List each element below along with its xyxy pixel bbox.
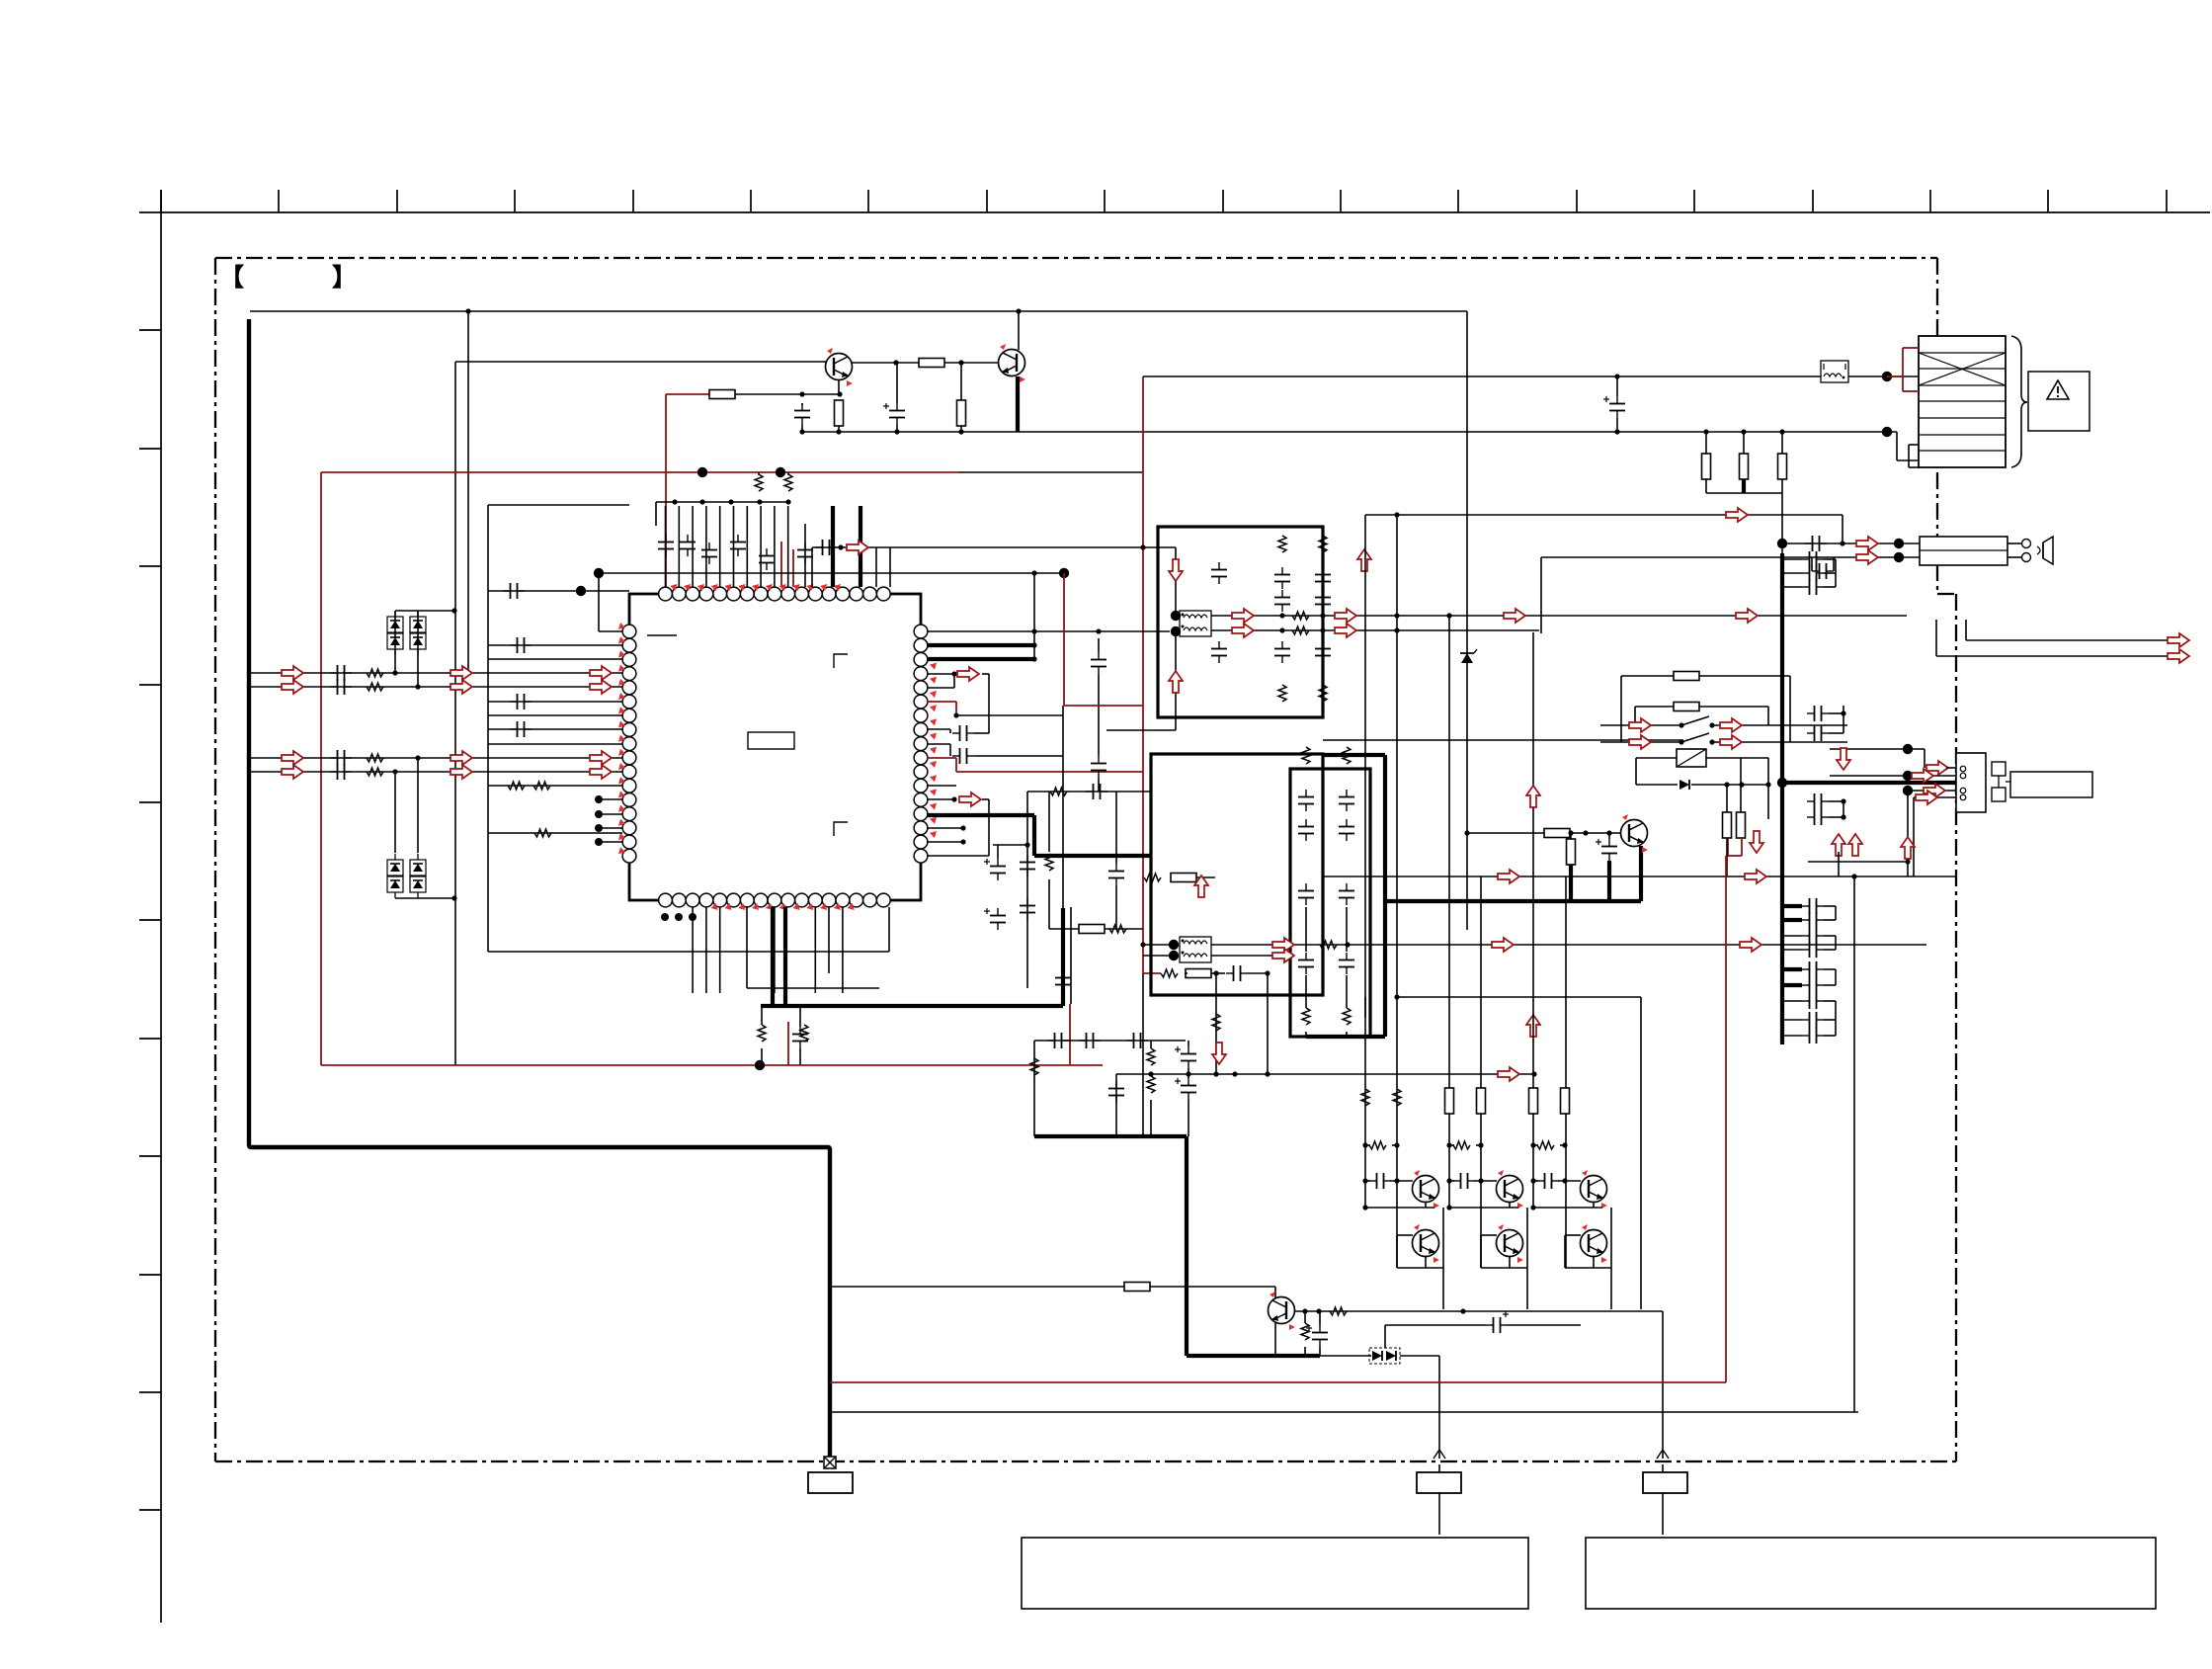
junction bbox=[1140, 544, 1145, 549]
resistor R28 bbox=[1079, 925, 1105, 934]
red stub bbox=[1143, 972, 1161, 974]
stub bbox=[599, 630, 622, 632]
audio input net bbox=[251, 771, 622, 773]
red pin bracket 2 bbox=[955, 758, 957, 772]
stub bbox=[1824, 968, 1836, 970]
stub bbox=[1048, 792, 1050, 852]
junction bbox=[465, 670, 470, 675]
transistor Q6 bbox=[1497, 1170, 1524, 1209]
junction bbox=[728, 499, 733, 504]
stub bbox=[1565, 1267, 1611, 1269]
junction bbox=[838, 544, 843, 549]
stub bbox=[1533, 1144, 1538, 1146]
Q2 emitter wire (thick) bbox=[1016, 376, 1020, 432]
board outline bottom (dash-dot) bbox=[215, 1460, 1956, 1462]
junction bbox=[1724, 782, 1729, 787]
resistor R8 bbox=[800, 1025, 808, 1042]
net bbox=[974, 755, 1063, 757]
signal arrow A5 bbox=[282, 680, 303, 694]
resistor R5 bbox=[755, 474, 763, 491]
junction (large) bbox=[1777, 539, 1787, 548]
junction bbox=[1531, 1071, 1536, 1076]
resistor R19 bbox=[1292, 612, 1309, 620]
signal arrow A34 bbox=[1498, 870, 1519, 883]
Q2 collector top lead bbox=[1018, 311, 1020, 350]
net Q1-Q2 link bbox=[852, 362, 919, 364]
capacitor C10 bbox=[330, 764, 352, 780]
connector CN3 body bbox=[1956, 753, 1986, 812]
resistor R6 bbox=[1740, 454, 1749, 479]
pin stub (thick) bbox=[859, 506, 862, 587]
battery black stub 2 bbox=[1909, 444, 1919, 446]
resistor R36 bbox=[1361, 1089, 1369, 1106]
IC bottom pin pointers bbox=[711, 903, 855, 910]
stub bbox=[1390, 1180, 1413, 1182]
warning triangle bbox=[2047, 380, 2069, 399]
pin stub bbox=[927, 687, 954, 689]
stub bbox=[1196, 876, 1215, 878]
stub bbox=[417, 758, 419, 853]
signal arrow A42 bbox=[1856, 537, 1878, 550]
left pin net bbox=[488, 832, 622, 834]
junction bbox=[1345, 942, 1350, 947]
stub bbox=[1115, 1107, 1117, 1136]
switch S1 contact bbox=[1681, 716, 1709, 725]
pin stub bbox=[927, 827, 963, 829]
transformer T2 bbox=[1180, 937, 1211, 962]
capacitor C28 bbox=[1802, 1028, 1824, 1043]
fuse FB1 bbox=[1821, 361, 1848, 382]
stub bbox=[888, 907, 890, 952]
pin stub bbox=[927, 743, 950, 745]
junction bbox=[1265, 970, 1270, 975]
junction bbox=[785, 499, 790, 504]
net to driver grid bbox=[1116, 1073, 1534, 1075]
pin stub bbox=[692, 506, 694, 587]
capacitor C37 bbox=[1812, 563, 1834, 579]
stub bbox=[838, 426, 840, 432]
stub bbox=[801, 425, 803, 432]
stub bbox=[1811, 557, 1813, 571]
stub bbox=[1935, 620, 1937, 656]
left pin net bbox=[488, 728, 622, 730]
signal arrow A6 bbox=[451, 680, 472, 694]
capacitor C6 bbox=[797, 542, 813, 564]
resistor R22 bbox=[1343, 747, 1351, 764]
IC U1 label box bbox=[748, 732, 794, 749]
net IC corner link bbox=[488, 590, 629, 592]
left pin net bbox=[488, 701, 622, 703]
junction bbox=[595, 838, 603, 846]
signal arrow A3 bbox=[451, 666, 472, 680]
rail cap stub (thick) bbox=[1782, 967, 1802, 971]
junction bbox=[1320, 613, 1325, 618]
stub bbox=[1699, 675, 1790, 677]
junction bbox=[1302, 1308, 1307, 1313]
stub bbox=[974, 732, 989, 734]
board outline left (dash-dot) bbox=[214, 258, 216, 1461]
capacitor C13 bbox=[1274, 567, 1290, 589]
stub bbox=[1248, 972, 1268, 974]
stub bbox=[1150, 1072, 1152, 1076]
cap bank link bbox=[1835, 906, 1837, 920]
stub bbox=[1726, 785, 1728, 812]
stub bbox=[1392, 1144, 1397, 1146]
stub (thick) bbox=[1607, 861, 1611, 901]
junction bbox=[757, 499, 762, 504]
stub bbox=[1570, 833, 1572, 839]
pin stub bbox=[678, 506, 680, 587]
stub bbox=[1304, 1347, 1306, 1356]
signal arrow A51 bbox=[1837, 748, 1850, 770]
audio input net bbox=[251, 672, 622, 674]
stub bbox=[1824, 984, 1836, 986]
rail cap stub bbox=[1782, 935, 1802, 937]
wire bbox=[735, 393, 840, 395]
stub bbox=[811, 547, 813, 587]
stub bbox=[1593, 1202, 1595, 1208]
capacitor C4 bbox=[730, 535, 746, 556]
resistor R15 bbox=[1278, 536, 1286, 552]
junction bbox=[1530, 1205, 1535, 1210]
stub bbox=[1560, 1144, 1565, 1146]
signal arrow A44 bbox=[1926, 761, 1948, 775]
audio input net bbox=[251, 686, 622, 688]
stub bbox=[1767, 707, 1769, 725]
pin stub down bbox=[719, 907, 721, 993]
left pin net bbox=[488, 714, 622, 716]
junction bbox=[1446, 1205, 1451, 1210]
capacitor C18 bbox=[1802, 565, 1824, 581]
battery red bracket vertical bbox=[1902, 348, 1904, 391]
junction bbox=[595, 824, 603, 832]
cap bank bus bbox=[656, 501, 790, 503]
resistor R13 bbox=[1147, 1048, 1155, 1065]
stub bbox=[1449, 1144, 1454, 1146]
stub bbox=[1425, 1256, 1427, 1268]
pin stub down bbox=[842, 907, 844, 993]
net emitter rail bbox=[802, 431, 1897, 433]
stub bbox=[1425, 1202, 1427, 1208]
cap bank link bbox=[1835, 936, 1837, 950]
stub bbox=[1185, 972, 1188, 974]
signal arrow A27 bbox=[1357, 549, 1371, 571]
CN2 terminal 2 bbox=[2022, 553, 2031, 562]
capacitor C20 bbox=[1802, 898, 1824, 914]
signal arrow A25 bbox=[1169, 559, 1183, 581]
stub bbox=[1509, 1202, 1511, 1208]
stub bbox=[394, 772, 396, 853]
junction bbox=[951, 671, 956, 676]
connector CN1 body bbox=[1919, 336, 2006, 467]
ruler vertical line bbox=[160, 190, 162, 1623]
stub bbox=[1365, 1180, 1370, 1182]
connector CN1 cross mark bbox=[1919, 353, 2006, 385]
capacitor C14 bbox=[1274, 590, 1290, 612]
stub bbox=[1843, 706, 1844, 733]
net long vertical 1 bbox=[1364, 515, 1366, 1208]
net filter2 out 2 bbox=[1211, 955, 1294, 957]
IC U1 internal mark B bbox=[834, 822, 848, 836]
signal arrow A39 bbox=[1629, 735, 1651, 749]
net speaker - bbox=[1541, 556, 1920, 558]
stub bbox=[758, 472, 760, 475]
resistor R46 bbox=[1537, 1141, 1554, 1149]
stub bbox=[1481, 1267, 1527, 1269]
junction bbox=[699, 499, 704, 504]
junction bbox=[1530, 1178, 1535, 1183]
resistor R41 bbox=[1477, 1088, 1486, 1114]
junction bbox=[1741, 429, 1746, 434]
net switch feed bbox=[1365, 514, 1843, 516]
capacitor C17 bbox=[1802, 551, 1824, 567]
net thick riser bbox=[1032, 815, 1036, 856]
capacitor C7 bbox=[330, 665, 352, 681]
resistor R10 bbox=[1186, 969, 1211, 978]
pin stub down bbox=[1070, 907, 1072, 1004]
signal arrow A48 bbox=[1832, 834, 1845, 856]
capacitor C34 (electrolytic) bbox=[1596, 839, 1617, 861]
stub bbox=[1616, 418, 1618, 432]
junction bbox=[1362, 1142, 1367, 1147]
junction bbox=[1186, 1071, 1190, 1076]
net VDD rail east bbox=[958, 471, 1143, 473]
warning note box bbox=[2028, 372, 2089, 431]
wire bbox=[1508, 1324, 1581, 1326]
net long vertical 2 bbox=[1396, 515, 1398, 1268]
signal arrow A30 bbox=[1740, 938, 1761, 952]
signal arrow A38 bbox=[1720, 718, 1742, 732]
red stub bbox=[1143, 876, 1144, 878]
signal arrow A41 bbox=[1750, 831, 1763, 853]
battery black stub 3 bbox=[1909, 466, 1919, 468]
net base rail Q1 bbox=[455, 361, 826, 363]
rail cap stub bbox=[1782, 1000, 1802, 1002]
capacitor C12 bbox=[1211, 562, 1227, 584]
stub bbox=[1509, 1256, 1511, 1268]
junction bbox=[1148, 1071, 1153, 1076]
to bottom rail bbox=[1442, 1208, 1444, 1309]
edge connector mark 1 bbox=[1434, 1450, 1445, 1459]
signal arrow A10 bbox=[590, 751, 612, 765]
ruler left tick marks bbox=[139, 330, 161, 1510]
capacitor C2 (electrolytic) bbox=[883, 403, 905, 425]
junction bbox=[1779, 429, 1784, 434]
pin stub bbox=[804, 524, 806, 587]
net AVCC link (red) bbox=[666, 393, 709, 395]
stub bbox=[1824, 919, 1836, 921]
net vertical feed B bbox=[454, 362, 456, 1065]
signal arrow A12 bbox=[451, 765, 472, 779]
stub bbox=[1305, 975, 1307, 1008]
stub bbox=[1824, 572, 1836, 574]
junction bbox=[1530, 1142, 1535, 1147]
capacitor C5b bbox=[952, 748, 974, 764]
stub bbox=[1033, 1041, 1035, 1136]
net battery feed bbox=[1143, 376, 1919, 377]
net vertical feed A bbox=[467, 311, 469, 673]
power rail right (thick) bbox=[1780, 553, 1784, 1044]
junction (large) bbox=[1903, 771, 1913, 781]
junction bbox=[1765, 782, 1770, 787]
junction bbox=[1709, 739, 1714, 744]
stub bbox=[1781, 432, 1783, 454]
net long vertical 3 bbox=[1448, 616, 1450, 1208]
resistor R25 bbox=[1320, 941, 1337, 949]
net long B bbox=[1323, 876, 1957, 877]
rail cap stub bbox=[1782, 558, 1802, 560]
base link 2 bbox=[1565, 1234, 1581, 1236]
junction bbox=[1362, 1178, 1367, 1183]
remote unit link bbox=[2006, 781, 2010, 783]
pin stub bbox=[927, 785, 956, 787]
stub (thick) bbox=[1569, 865, 1573, 901]
net CN3 e bbox=[1808, 861, 1908, 863]
signal arrow A26 bbox=[1169, 671, 1183, 693]
net red bottom bbox=[830, 1381, 1726, 1383]
resistor R34 bbox=[1723, 812, 1732, 838]
capacitor C21 bbox=[1802, 912, 1824, 928]
junction (large) bbox=[594, 568, 604, 578]
stub bbox=[1824, 935, 1836, 937]
stub bbox=[1924, 749, 1925, 768]
signal arrow A22 bbox=[1335, 624, 1356, 637]
net filter2 out 1 bbox=[1211, 944, 1926, 946]
capacitor C8 bbox=[1226, 965, 1248, 981]
transistor Q3 bbox=[1621, 814, 1649, 853]
junction bbox=[1478, 1178, 1483, 1183]
capacitor C23 bbox=[1339, 819, 1354, 841]
net bbox=[747, 987, 879, 989]
stub bbox=[1048, 879, 1050, 929]
relay K1 coil bbox=[1677, 749, 1706, 767]
board outline right upper (dash-dot) bbox=[1936, 258, 1938, 594]
net DAC out L (thick) bbox=[927, 643, 1034, 647]
red pin bracket bbox=[927, 701, 956, 703]
net red vertical right bbox=[1725, 856, 1727, 1382]
junction bbox=[1031, 656, 1036, 661]
wire bbox=[1320, 1355, 1371, 1357]
connector CN1 pin separators bbox=[1919, 353, 2006, 451]
junction (large) bbox=[1903, 744, 1913, 754]
stub bbox=[1789, 676, 1791, 742]
IC U1 top pin row bbox=[659, 587, 891, 601]
stub bbox=[1188, 1100, 1189, 1136]
net riser bbox=[988, 799, 990, 856]
net thick vertical bbox=[1383, 755, 1387, 1037]
resistor R10b bbox=[1171, 874, 1196, 882]
capacitor C10 (electrolytic) bbox=[1175, 1046, 1196, 1068]
signal arrow A53 bbox=[2168, 649, 2189, 663]
capacitor C14 bbox=[1047, 1033, 1069, 1048]
signal arrow A36 bbox=[1526, 786, 1540, 807]
junction bbox=[1024, 842, 1029, 847]
capacitor C8 bbox=[330, 679, 352, 695]
stub bbox=[1824, 1000, 1836, 1002]
red stub bbox=[787, 1022, 789, 1065]
stub bbox=[1691, 784, 1768, 786]
red stub bbox=[1069, 1004, 1071, 1065]
junction bbox=[1394, 512, 1399, 517]
junction bbox=[1394, 1142, 1399, 1147]
stub bbox=[1365, 1144, 1370, 1146]
capacitor C16 bbox=[1315, 590, 1331, 612]
capacitor C15 bbox=[1315, 567, 1331, 589]
signal arrow A46 bbox=[1924, 784, 1945, 797]
cap bank link bbox=[1835, 969, 1837, 985]
stub bbox=[488, 504, 629, 506]
capacitor C17 bbox=[1211, 641, 1227, 663]
board outline right lower (dash-dot) bbox=[1955, 594, 1957, 1461]
emitter link bbox=[1365, 1207, 1434, 1209]
pin stub bbox=[774, 506, 776, 587]
stub bbox=[949, 729, 951, 733]
capacitor C27 bbox=[1339, 953, 1354, 974]
stub bbox=[1767, 758, 1769, 819]
capacitor C5c bbox=[1091, 652, 1106, 674]
resistor R3 bbox=[919, 359, 944, 368]
filter block 2 inner frame bbox=[1290, 769, 1370, 1037]
stub bbox=[1829, 712, 1843, 714]
stub bbox=[1620, 676, 1622, 742]
net Q3 base bbox=[1467, 832, 1545, 834]
junction bbox=[1464, 830, 1469, 835]
diode array DA2a bbox=[387, 854, 403, 898]
capacitor C36 bbox=[1805, 536, 1827, 551]
stub bbox=[896, 425, 898, 432]
stub bbox=[1740, 758, 1742, 812]
net black bottom bbox=[830, 1411, 1858, 1413]
junction bbox=[1279, 613, 1284, 618]
net riser bbox=[988, 674, 990, 733]
signal arrow A35 bbox=[1745, 870, 1766, 883]
junction bbox=[689, 913, 696, 921]
junction bbox=[1841, 710, 1845, 715]
stub bbox=[1781, 493, 1783, 553]
stub bbox=[1474, 1180, 1497, 1182]
junction bbox=[1031, 628, 1036, 633]
net CN3 b bbox=[1830, 775, 1956, 777]
stub bbox=[1705, 432, 1707, 454]
stub bbox=[598, 573, 600, 631]
IC U1 bottom pin row bbox=[659, 893, 891, 907]
junction bbox=[1362, 1205, 1367, 1210]
junction bbox=[1016, 308, 1021, 313]
capacitor C24 bbox=[1802, 961, 1824, 977]
signal arrow A1 bbox=[847, 541, 868, 554]
junction bbox=[1679, 739, 1683, 744]
junction (large) bbox=[776, 467, 785, 477]
junction bbox=[799, 429, 804, 434]
stub bbox=[1946, 767, 1956, 769]
net vertical bbox=[1026, 792, 1028, 988]
stub bbox=[1384, 1325, 1386, 1348]
wire bbox=[1400, 1355, 1439, 1357]
resistor R48 bbox=[1124, 1283, 1150, 1292]
resistor R18 bbox=[1319, 685, 1327, 702]
pin stub down bbox=[692, 907, 694, 993]
transistor Q1 bbox=[826, 348, 854, 386]
resistor R38 bbox=[1369, 1141, 1386, 1149]
battery black stub bbox=[1897, 459, 1919, 461]
bottom power bus (thick) bbox=[761, 1004, 1063, 1008]
junction bbox=[836, 429, 841, 434]
pin stub bbox=[719, 506, 721, 587]
rail cap stub bbox=[1782, 1035, 1802, 1037]
zener diode D2 bbox=[1460, 649, 1477, 663]
net CN3 a bbox=[1830, 748, 1925, 750]
diode D4 bbox=[1372, 1351, 1382, 1361]
